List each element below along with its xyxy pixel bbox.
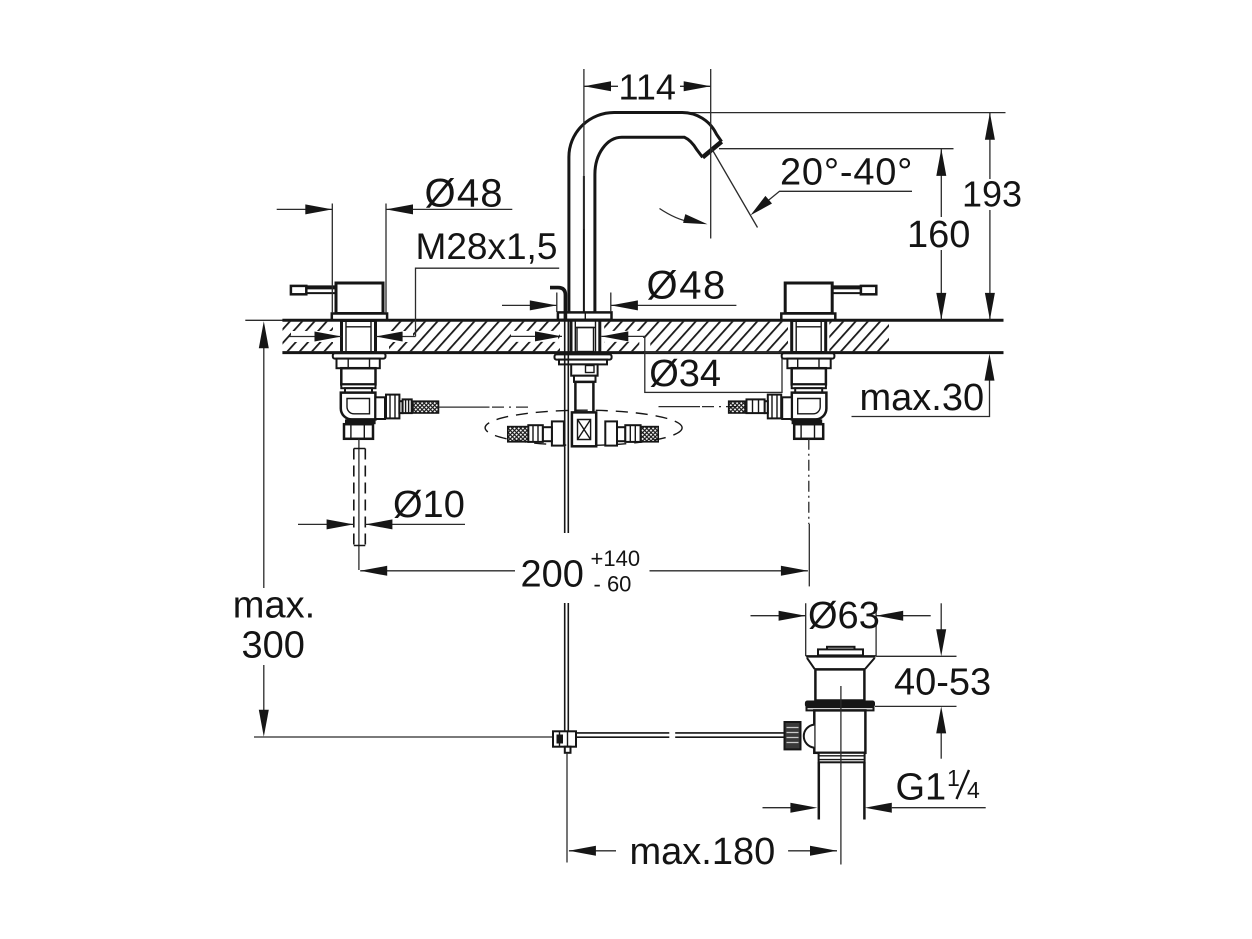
svg-text:193: 193 (962, 174, 1022, 215)
Ø10 dashed stud (354, 449, 366, 546)
right valve mounting nut (787, 359, 830, 369)
dimension max.180 (569, 850, 837, 852)
left valve washer below counter (333, 353, 386, 358)
left handle escutcheon (332, 314, 387, 321)
drain upper body (815, 669, 864, 700)
spout outlet face (703, 142, 722, 158)
middle escutcheon (558, 312, 612, 319)
dimension G1 1/4 (763, 807, 986, 809)
svg-text:1: 1 (947, 765, 960, 791)
left valve shank through countertop (342, 321, 376, 353)
svg-text:Ø48: Ø48 (425, 172, 504, 216)
svg-text:- 60: - 60 (594, 572, 632, 597)
svg-text:M28x1,5: M28x1,5 (416, 226, 558, 267)
right handle lever (831, 286, 876, 294)
left valve centerline (358, 439, 360, 570)
middle valve body (575, 382, 593, 413)
right valve flex hose braid (729, 401, 746, 413)
countertop bottom line (282, 351, 1003, 354)
countertop top line (245, 319, 284, 321)
Ø63 extension lines (806, 603, 876, 656)
pop-up rod hook (550, 288, 565, 320)
T right connection (605, 421, 617, 445)
left valve elbow (341, 393, 376, 420)
drain centerline (840, 686, 842, 865)
svg-text:G1: G1 (896, 767, 947, 809)
left valve mounting nut (337, 359, 380, 369)
drain flange (806, 655, 876, 658)
swivel arc arrow (660, 209, 691, 222)
M28 arrows left valve (291, 331, 413, 342)
svg-text:200: 200 (521, 554, 584, 596)
svg-text:160: 160 (907, 214, 970, 256)
svg-text:300: 300 (242, 624, 305, 666)
Ø34 arrows (511, 336, 645, 351)
svg-text:114: 114 (619, 67, 676, 108)
drain slip nut (819, 753, 865, 763)
right valve centerline dash-dot (808, 439, 810, 524)
left valve body (341, 368, 375, 384)
right valve shank through countertop (792, 321, 826, 353)
svg-text:4: 4 (967, 777, 980, 803)
left handle body (336, 283, 383, 314)
middle flange below counter (555, 354, 612, 359)
svg-text:max.30: max.30 (860, 377, 985, 419)
middle shank through countertop (571, 321, 600, 353)
dimension 193 reference line (spout top) (688, 112, 1006, 114)
left handle lever (291, 286, 336, 294)
right handle escutcheon (781, 314, 835, 321)
svg-text:Ø34: Ø34 (649, 353, 721, 395)
Ø34 label box (645, 353, 782, 393)
dimension Ø48 left extension lines (332, 204, 386, 314)
left valve bottom nut (344, 424, 373, 439)
dimension 160 reference line (spout outlet) (719, 148, 954, 150)
spout body (569, 112, 722, 313)
right valve bottom nut (794, 424, 823, 439)
dimension 200 +140 -60 (360, 570, 808, 572)
left valve lower junction (345, 419, 376, 424)
right valve washer below counter (782, 353, 835, 358)
left valve flex hose braid (413, 401, 439, 413)
dimension 114 (583, 69, 585, 229)
svg-text:Ø63: Ø63 (808, 595, 880, 637)
middle T block (572, 412, 596, 446)
right hose line (659, 406, 701, 408)
countertop hatching (283, 320, 890, 353)
right valve side port (782, 397, 792, 419)
basin outline dashed (485, 410, 682, 445)
middle pull rod (565, 321, 569, 534)
right handle body (785, 283, 832, 314)
max.180 extension line (566, 753, 568, 863)
right valve body (792, 368, 826, 384)
water direction line (711, 148, 758, 228)
drain knurled nut (785, 722, 801, 749)
T left connection (552, 421, 564, 445)
svg-text:max.180: max.180 (630, 831, 776, 873)
svg-text:20°-40°: 20°-40° (780, 152, 913, 194)
svg-text:max.: max. (233, 585, 315, 627)
drain tailpiece (819, 762, 865, 819)
pull rod clamp (553, 731, 576, 746)
left hose line (439, 406, 490, 408)
dimension Ø10 (298, 523, 465, 525)
bottom reference line (254, 736, 553, 738)
dimension 160 (940, 149, 942, 320)
spout inner line (583, 176, 585, 312)
dimension Ø63 (751, 615, 931, 617)
right valve elbow (792, 393, 827, 420)
dimension Ø48 left (277, 208, 513, 210)
drain plug knob (827, 647, 855, 650)
drain rod bulge (804, 725, 815, 748)
dimension 40-53 upper (876, 655, 956, 657)
svg-text:40-53: 40-53 (894, 662, 991, 704)
left valve side port (375, 397, 385, 419)
drain lower body (814, 710, 865, 752)
svg-text:Ø48: Ø48 (647, 264, 727, 308)
middle connector (571, 364, 597, 375)
dimension max.300 (263, 348, 265, 710)
dimension Ø48 middle extension lines (557, 293, 611, 313)
svg-text:+140: +140 (591, 546, 641, 571)
horizontal actuator rod (576, 733, 669, 737)
dimension 40-53 lower (875, 705, 957, 707)
drain seal ring (805, 701, 875, 708)
dimension 193 (989, 113, 991, 320)
dimension Ø48 middle (502, 304, 736, 306)
right valve lower junction (792, 419, 823, 424)
svg-text:Ø10: Ø10 (393, 484, 465, 526)
